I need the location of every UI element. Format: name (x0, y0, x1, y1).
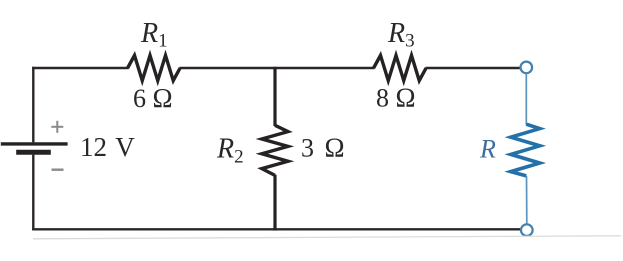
terminal bottom-right (open circle) (521, 224, 533, 236)
wire top middle segment (R1 to R3 through node A) (180, 67, 375, 69)
wire blue bottom (R to terminal) (526, 176, 528, 224)
node A (junction of R1, R3, R2) (273, 67, 276, 126)
svg-text:R1: R1 (140, 18, 168, 52)
wire left vertical (battery - to bottom corner) (32, 155, 34, 230)
scan shadow line (faint) (33, 236, 621, 239)
resistor R1 (128, 55, 181, 80)
svg-text:6 Ω: 6 Ω (133, 83, 173, 113)
resistor R (blue) (511, 124, 540, 176)
battery minus sign (52, 168, 64, 170)
svg-text:12 V: 12 V (80, 132, 135, 162)
svg-text:3 Ω: 3 Ω (301, 133, 345, 163)
wire bottom (battery to terminal) (32, 228, 521, 230)
svg-text:8 Ω: 8 Ω (376, 82, 416, 112)
battery plus sign (51, 121, 63, 133)
wire top-left segment (battery + node to R1) (32, 67, 129, 69)
wire R2 bottom lead to bottom rail (273, 175, 276, 231)
battery V1 negative plate (16, 150, 51, 155)
battery V1 positive plate (1, 142, 68, 145)
resistor R2 (262, 125, 288, 175)
resistor R3 (374, 55, 427, 80)
svg-text:R3: R3 (387, 18, 415, 52)
svg-text:R: R (479, 135, 496, 164)
terminal top-right (open circle) (521, 62, 533, 74)
wire top-right segment (R3 to terminal) (426, 67, 521, 69)
wire left vertical (top corner to battery +) (32, 67, 34, 143)
wire blue top (terminal to R) (525, 74, 527, 125)
svg-text:R2: R2 (216, 134, 244, 168)
